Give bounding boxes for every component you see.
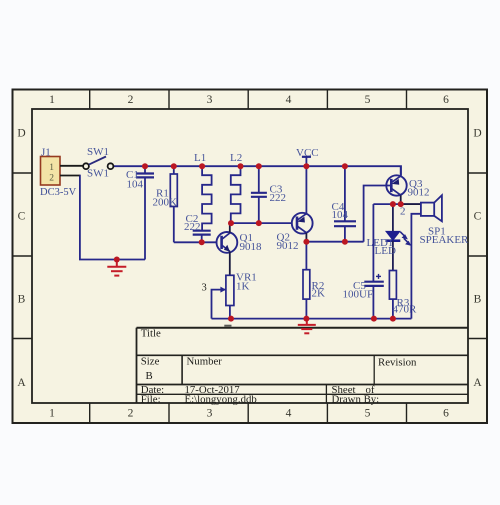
svg-text:100UF: 100UF bbox=[343, 289, 374, 301]
svg-text:2: 2 bbox=[400, 206, 406, 218]
zone numbers top bbox=[17, 94, 482, 420]
wire J1 pin2 to ground line bbox=[79, 176, 145, 260]
svg-text:1: 1 bbox=[49, 163, 54, 173]
svg-text:1K: 1K bbox=[236, 281, 250, 293]
speaker SP1 bbox=[401, 195, 469, 318]
potentiometer VR1 bbox=[202, 272, 257, 319]
stray gray tick bbox=[224, 325, 231, 327]
svg-text:6: 6 bbox=[443, 94, 449, 106]
svg-text:VCC: VCC bbox=[296, 147, 319, 159]
svg-text:B: B bbox=[474, 294, 482, 306]
junction C5 bottom on ground rail bbox=[371, 316, 377, 322]
svg-text:E:\longyong.ddb: E:\longyong.ddb bbox=[185, 393, 257, 405]
junction C3 bottom bbox=[256, 220, 262, 226]
svg-text:3: 3 bbox=[202, 282, 207, 293]
svg-text:9012: 9012 bbox=[408, 186, 430, 198]
svg-text:2K: 2K bbox=[312, 287, 326, 299]
svg-text:Drawn By:: Drawn By: bbox=[332, 393, 380, 405]
svg-text:C: C bbox=[18, 211, 26, 223]
svg-text:A: A bbox=[17, 377, 26, 389]
svg-text:SPEAKER: SPEAKER bbox=[420, 234, 470, 246]
LED LED1 bbox=[367, 204, 412, 270]
svg-text:B: B bbox=[18, 294, 26, 306]
capacitor C1 bbox=[126, 166, 154, 190]
svg-text:DC3-5V: DC3-5V bbox=[40, 187, 77, 198]
transistor Q2 9012 bbox=[277, 166, 313, 252]
svg-text:2: 2 bbox=[128, 408, 134, 420]
svg-text:104: 104 bbox=[127, 179, 144, 191]
junction ground tap on J1 return bbox=[114, 257, 120, 263]
pin 1 bbox=[60, 165, 83, 167]
wire R1/C2 to Q1 base bbox=[174, 241, 217, 243]
switch SW1 bbox=[83, 146, 113, 179]
svg-text:SW1: SW1 bbox=[87, 146, 109, 158]
svg-text:2: 2 bbox=[49, 174, 54, 184]
junction C2 bottom / Q1 base bbox=[199, 239, 205, 245]
svg-text:6: 6 bbox=[443, 408, 449, 420]
capacitor C3 bbox=[251, 166, 286, 223]
wire Q3 collector node bbox=[373, 203, 421, 205]
svg-text:9018: 9018 bbox=[240, 241, 263, 253]
junction L1 top on VCC rail bbox=[199, 163, 205, 169]
wire top VCC rail bbox=[114, 166, 401, 175]
svg-text:4: 4 bbox=[286, 94, 292, 106]
svg-text:Size: Size bbox=[141, 356, 160, 368]
wire VR1 wiper to rail bbox=[212, 290, 226, 319]
transistor Q3 9012 bbox=[386, 166, 429, 204]
junction C4 bottom bbox=[342, 239, 348, 245]
resistor R3 bbox=[389, 271, 417, 319]
svg-text:3: 3 bbox=[207, 408, 213, 420]
svg-text:D: D bbox=[17, 128, 25, 140]
wire riser to Q3 base bbox=[364, 186, 391, 242]
transistor Q1 9018 bbox=[217, 223, 263, 275]
wire C1 lower lead bbox=[144, 178, 146, 260]
svg-text:3: 3 bbox=[207, 94, 213, 106]
ground (left, J1 return) bbox=[107, 260, 126, 276]
svg-text:4: 4 bbox=[286, 408, 292, 420]
svg-text:SW1: SW1 bbox=[87, 168, 109, 180]
junction Q3 collector / speaker bbox=[398, 201, 404, 207]
VCC power port bbox=[296, 147, 319, 166]
resistor R1 bbox=[153, 166, 178, 242]
svg-text:1: 1 bbox=[49, 408, 55, 420]
svg-text:C: C bbox=[474, 211, 482, 223]
junction C1 top on VCC rail bbox=[142, 163, 148, 169]
capacitor C2 bbox=[184, 213, 211, 242]
svg-text:B: B bbox=[146, 370, 153, 382]
capacitor C4 bbox=[332, 166, 357, 242]
svg-text:Number: Number bbox=[187, 356, 223, 368]
capacitor C5 100UF bbox=[343, 204, 384, 319]
svg-text:2: 2 bbox=[128, 94, 134, 106]
svg-text:File:: File: bbox=[141, 393, 161, 405]
junction R3 bottom on ground rail bbox=[390, 316, 396, 322]
svg-text:222: 222 bbox=[184, 221, 201, 233]
svg-text:200K: 200K bbox=[153, 197, 178, 209]
svg-text:9012: 9012 bbox=[277, 240, 299, 252]
svg-text:Title: Title bbox=[141, 328, 161, 340]
svg-text:5: 5 bbox=[365, 408, 371, 420]
svg-text:222: 222 bbox=[270, 192, 287, 204]
svg-text:5: 5 bbox=[365, 94, 371, 106]
junction VCC node bbox=[303, 163, 309, 169]
junction Q2 collector / R2 top bbox=[303, 239, 309, 245]
svg-text:104: 104 bbox=[332, 209, 349, 221]
title block bbox=[137, 328, 469, 403]
junction L2 bottom / Q1 collector bbox=[228, 220, 234, 226]
ground (main, below rail) bbox=[298, 319, 316, 334]
junction VR1 bottom on ground rail bbox=[228, 316, 234, 322]
junction LED1 anode bbox=[390, 201, 396, 207]
zone divider ticks bbox=[13, 90, 488, 424]
svg-text:Revision: Revision bbox=[378, 357, 417, 369]
svg-text:J1: J1 bbox=[41, 146, 51, 158]
junction R2 bottom on ground rail bbox=[303, 316, 309, 322]
wire Q2 collector node bbox=[306, 241, 363, 243]
inner border bbox=[32, 109, 468, 403]
resistor R2 bbox=[303, 242, 325, 319]
junction C4 top on VCC rail bbox=[342, 163, 348, 169]
inductor L1 bbox=[194, 152, 212, 230]
svg-text:D: D bbox=[473, 128, 481, 140]
svg-text:1: 1 bbox=[49, 94, 55, 106]
pin 2 bbox=[60, 175, 80, 177]
inductor L2 bbox=[230, 152, 242, 223]
connector J1 bbox=[40, 146, 83, 198]
svg-text:A: A bbox=[473, 377, 482, 389]
svg-text:L2: L2 bbox=[230, 152, 242, 164]
svg-text:470R: 470R bbox=[393, 304, 418, 316]
junction C3 top on VCC rail bbox=[256, 163, 262, 169]
junction L2 top on VCC rail bbox=[238, 163, 244, 169]
svg-text:LED: LED bbox=[375, 245, 396, 257]
wire tank node to Q2 base bbox=[231, 222, 292, 224]
ground rail (bottom) bbox=[212, 318, 412, 320]
junction R1 top on VCC rail bbox=[171, 163, 177, 169]
sheet background bbox=[13, 90, 488, 424]
svg-text:L1: L1 bbox=[194, 152, 206, 164]
